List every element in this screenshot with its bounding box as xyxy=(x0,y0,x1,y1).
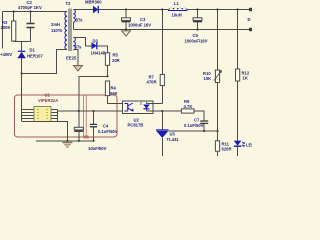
svg-text:C4: C4 xyxy=(103,124,109,129)
svg-text:R4: R4 xyxy=(111,86,117,91)
T2 secondary winding 8Ts xyxy=(73,10,75,23)
node C6 tap xyxy=(78,110,80,112)
capacitor C6 xyxy=(74,127,83,130)
resistor R9 xyxy=(162,111,204,121)
svg-text:C5: C5 xyxy=(193,33,199,38)
svg-text:4700pF 1KV: 4700pF 1KV xyxy=(18,5,42,10)
resistor R10 (adj) xyxy=(216,8,218,10)
opto LED xyxy=(143,105,150,109)
diode D2 MBR360 xyxy=(92,9,95,11)
svg-text:20R: 20R xyxy=(112,58,120,63)
svg-text:620R: 620R xyxy=(222,146,232,151)
output terminal xyxy=(249,8,252,11)
svg-text:VIPER22A: VIPER22A xyxy=(38,98,58,103)
capacitor C7 xyxy=(200,121,208,123)
node R3 top xyxy=(13,10,15,12)
svg-text:HER107: HER107 xyxy=(27,54,43,59)
ground earth U1 xyxy=(66,140,68,142)
diode D3 1N4148 xyxy=(92,42,97,49)
node drain junction xyxy=(21,72,23,74)
svg-text:0.1uF/50V: 0.1uF/50V xyxy=(184,123,204,128)
capacitor C2 xyxy=(30,12,32,42)
svg-text:1N4148: 1N4148 xyxy=(91,51,106,56)
resistor R12 xyxy=(237,8,239,10)
wire drain to primary bottom xyxy=(22,50,64,74)
svg-text:2: 2 xyxy=(140,102,142,106)
svg-text:110Ts: 110Ts xyxy=(51,28,63,33)
svg-text:C6: C6 xyxy=(84,135,90,140)
wire primary ground rail xyxy=(36,140,94,142)
wire source bottom xyxy=(22,122,67,142)
wire opto LED cathode xyxy=(147,110,163,112)
svg-text:C3: C3 xyxy=(140,17,146,22)
svg-text:200K: 200K xyxy=(1,25,11,30)
wire HV input drop xyxy=(2,12,4,49)
svg-text:470R: 470R xyxy=(147,80,157,85)
svg-text:D1: D1 xyxy=(30,48,36,53)
ground secondary (triangle) xyxy=(125,30,127,31)
wire aux top to D3 xyxy=(73,37,91,46)
diode D1 HER107 xyxy=(18,50,26,52)
svg-text:MBR360: MBR360 xyxy=(85,0,102,5)
svg-text:R5: R5 xyxy=(113,53,119,58)
capacitor C3 xyxy=(125,8,127,10)
svg-text:LED: LED xyxy=(246,143,252,148)
capacitor C5 xyxy=(196,8,198,10)
resistor R7 xyxy=(161,8,163,10)
wire FB line xyxy=(58,110,123,112)
inductor L1 xyxy=(169,8,187,11)
resistor R3 xyxy=(13,12,15,22)
svg-text:L1: L1 xyxy=(174,1,180,6)
wire secondary return rail xyxy=(73,29,252,31)
svg-text:PC817B: PC817B xyxy=(128,123,144,128)
svg-text:C7: C7 xyxy=(194,118,200,123)
wire drain bus down xyxy=(21,74,23,122)
highlight box around U1 xyxy=(15,95,118,137)
svg-text:EE25: EE25 xyxy=(66,56,77,61)
resistor R11 xyxy=(217,131,219,156)
svg-text:2mH: 2mH xyxy=(51,22,60,27)
svg-text:U3: U3 xyxy=(170,132,176,137)
svg-text:U1: U1 xyxy=(45,93,51,98)
svg-text:4.7K: 4.7K xyxy=(184,104,193,109)
svg-text:1000uF/16V: 1000uF/16V xyxy=(185,39,208,44)
wire clamp bar xyxy=(14,41,31,51)
svg-text:1000uF 16V: 1000uF 16V xyxy=(128,23,151,28)
svg-text:56K: 56K xyxy=(110,91,118,96)
red net line pair xyxy=(84,96,87,137)
svg-text:D: D xyxy=(248,17,251,22)
svg-text:+400V: +400V xyxy=(0,52,12,57)
svg-text:8Ts: 8Ts xyxy=(76,18,84,23)
svg-text:10uF/50V: 10uF/50V xyxy=(88,146,107,151)
T2 aux winding 5Ts xyxy=(73,37,75,50)
LED indicator xyxy=(234,141,242,146)
wire R7 to opto LED xyxy=(147,103,163,105)
wire VDD to C6 xyxy=(79,76,108,127)
shunt U3 TL431 xyxy=(156,129,169,131)
svg-text:D3: D3 xyxy=(93,39,99,44)
resistor R4 xyxy=(105,81,109,96)
svg-text:TL431: TL431 xyxy=(167,137,180,142)
resistor R5 xyxy=(105,53,109,66)
svg-text:1K: 1K xyxy=(243,76,248,81)
wire TL431 ref xyxy=(169,130,218,132)
capacitor C4 xyxy=(93,111,95,141)
svg-text:T2: T2 xyxy=(66,1,72,6)
wire to TL431 cathode xyxy=(161,111,163,130)
svg-text:10uH: 10uH xyxy=(172,13,182,18)
node C2 top xyxy=(29,10,31,12)
T2 primary winding 110Ts xyxy=(65,12,67,50)
wire aux bottom to ground xyxy=(73,50,78,66)
wire +12V rail xyxy=(99,9,253,11)
optocoupler U2 PC817B xyxy=(123,101,154,114)
ground aux (triangle) xyxy=(74,66,83,72)
svg-text:5Ts: 5Ts xyxy=(75,45,83,50)
svg-text:0.1uF/50V: 0.1uF/50V xyxy=(98,129,118,134)
node VDD xyxy=(106,75,108,77)
node C4 tap xyxy=(92,110,94,112)
transformer T2 core xyxy=(69,9,71,52)
node feedback xyxy=(161,110,163,112)
svg-text:10K: 10K xyxy=(204,76,212,81)
wire HV+ top rail xyxy=(3,11,65,13)
